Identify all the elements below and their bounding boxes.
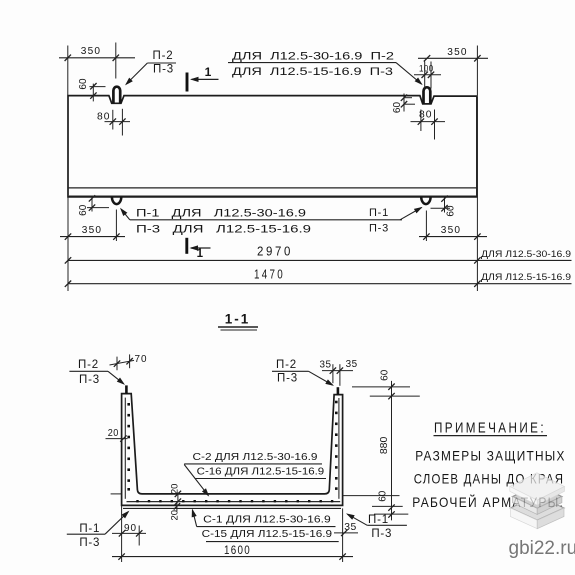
section cut mark 1 (bottom) [187, 238, 211, 260]
rebar dots bottom slab [136, 500, 333, 502]
svg-text:100: 100 [419, 64, 434, 75]
svg-text:П-2: П-2 [78, 359, 99, 371]
svg-text:1: 1 [205, 65, 212, 79]
dimension 60 bottom-right [431, 195, 457, 216]
dimension 20 slab bottom cover [169, 502, 180, 521]
dimension 80 top-right [411, 109, 446, 139]
svg-text:П-1: П-1 [79, 523, 100, 535]
svg-text:П-1 ДЛЯ Л12.5-30-16.9: П-1 ДЛЯ Л12.5-30-16.9 [136, 207, 306, 219]
dimension 350 bottom-right [419, 211, 487, 242]
svg-text:П-2: П-2 [153, 50, 174, 62]
rebar dots left wall [127, 403, 130, 491]
svg-text:П-2: П-2 [276, 359, 297, 371]
dimension 350 bottom-left [60, 210, 125, 242]
svg-text:60: 60 [380, 369, 391, 381]
reinforcement cage line right wall [338, 398, 340, 499]
svg-text:70: 70 [135, 354, 148, 365]
svg-text:ДЛЯ Л12.5-15-16.9 П-3: ДЛЯ Л12.5-15-16.9 П-3 [232, 66, 393, 78]
svg-text:ДЛЯ Л12.5-30-16.9 П-2: ДЛЯ Л12.5-30-16.9 П-2 [232, 51, 394, 63]
svg-text:С-15 ДЛЯ Л12.5-15-16.9: С-15 ДЛЯ Л12.5-15-16.9 [202, 528, 333, 540]
svg-text:С-1 ДЛЯ Л12.5-30-16.9: С-1 ДЛЯ Л12.5-30-16.9 [203, 513, 331, 525]
gbi22 watermark stack logo [510, 473, 565, 529]
note title Primechanie [434, 421, 548, 437]
svg-text:60: 60 [78, 78, 89, 90]
dimension 350 top-left [59, 43, 135, 96]
dimension 80 top-left (recess width) [97, 109, 130, 136]
svg-text:35: 35 [346, 359, 358, 370]
channel section outline [122, 394, 343, 506]
lifting loop P2 top-left [113, 87, 120, 104]
dimension 20 slab top cover [169, 484, 181, 505]
svg-text:П-3: П-3 [371, 528, 392, 540]
svg-text:60: 60 [445, 205, 456, 217]
dimension 60 top-left (loop protrusion) [78, 78, 105, 101]
svg-text:60: 60 [378, 490, 389, 502]
dimension 35 bottom-right of section [334, 521, 358, 536]
overall dimension 1470 [65, 267, 572, 287]
lifting loop P1 bottom-right [421, 197, 430, 204]
svg-text:С-16 ДЛЯ Л12.5-15-16.9: С-16 ДЛЯ Л12.5-15-16.9 [197, 466, 325, 478]
svg-text:ПРИМЕЧАНИЕ:: ПРИМЕЧАНИЕ: [434, 421, 546, 437]
label P-1/P-3 section bottom-right with leader [346, 513, 407, 540]
svg-text:90: 90 [124, 522, 137, 534]
dimension 35+35 section top-right [320, 359, 358, 386]
reinforcement mesh line in slab [127, 501, 341, 503]
svg-text:ДЛЯ Л12.5-15-16.9: ДЛЯ Л12.5-15-16.9 [481, 272, 571, 282]
svg-text:П-1: П-1 [368, 514, 389, 526]
rebar dots right wall [335, 401, 338, 490]
svg-text:П-3 ДЛЯ Л12.5-15-16.9: П-3 ДЛЯ Л12.5-15-16.9 [136, 224, 311, 236]
svg-text:П-1: П-1 [369, 207, 389, 219]
svg-text:880: 880 [378, 436, 390, 454]
dimension 60 top-right (recess depth) [392, 94, 415, 114]
svg-text:gbi22.ru: gbi22.ru [509, 538, 575, 559]
svg-text:1470: 1470 [254, 267, 285, 282]
label DLYA L12.5 rows top-right with leader to loop [228, 51, 423, 86]
svg-text:20: 20 [169, 510, 180, 521]
floor line right extension [343, 495, 400, 497]
dimension 70 section top-left [110, 354, 148, 370]
svg-text:П-3: П-3 [153, 64, 174, 76]
section cut mark 1 (top) [187, 65, 219, 92]
lifting loop P2 top-right [423, 87, 430, 104]
svg-text:80: 80 [419, 109, 433, 120]
overall dimension 2970 with extension lines [65, 97, 572, 292]
svg-text:1600: 1600 [224, 545, 251, 557]
label C-2 / C-16 rows with leader to mesh [184, 451, 326, 497]
svg-text:35: 35 [344, 521, 357, 533]
svg-text:80: 80 [97, 111, 111, 122]
svg-text:РАЗМЕРЫ ЗАЩИТНЫХ: РАЗМЕРЫ ЗАЩИТНЫХ [415, 448, 566, 464]
svg-text:350: 350 [441, 225, 462, 236]
dimension 100 top-right (loop width) [414, 62, 441, 89]
beam elevation outline [68, 96, 477, 197]
svg-text:П-3: П-3 [79, 374, 100, 386]
lifting loop P1 bottom-left [112, 197, 121, 204]
dimension 20 left wall cover [106, 428, 128, 442]
label P-2/P-3 top-left with leader [125, 50, 176, 86]
dimension 90 bottom-left of section [112, 522, 146, 545]
svg-text:350: 350 [447, 47, 468, 58]
label P-1/P-3 rows bottom with leaders to loops [120, 207, 423, 236]
svg-text:20: 20 [108, 428, 119, 439]
overall dimension 1600 with extension lines [112, 505, 353, 562]
svg-text:С-2 ДЛЯ Л12.5-30-16.9: С-2 ДЛЯ Л12.5-30-16.9 [193, 451, 318, 463]
svg-text:60: 60 [392, 102, 403, 114]
svg-text:350: 350 [81, 46, 102, 57]
vertical dimension 60/880/60 right of section [352, 369, 420, 520]
label P-1/P-3 section bottom-left with leader [67, 511, 130, 549]
label C-1 / C-15 rows with leader to slab [192, 509, 339, 542]
dimension 60 bottom-left [78, 195, 109, 216]
loop bar tip top-right wall [337, 387, 340, 394]
slab bottom second line [123, 507, 341, 509]
svg-text:П-3: П-3 [79, 537, 100, 549]
label P-2/P-3 section left with leader [69, 359, 125, 386]
dimension 350 top-right [418, 46, 488, 96]
floor line left extension [111, 493, 122, 495]
svg-text:П-3: П-3 [277, 372, 298, 384]
svg-text:350: 350 [82, 225, 103, 236]
svg-text:60: 60 [78, 204, 89, 216]
svg-text:2970: 2970 [257, 244, 293, 259]
svg-text:ДЛЯ Л12.5-30-16.9: ДЛЯ Л12.5-30-16.9 [481, 249, 571, 259]
loop bar tip top-left wall [125, 385, 128, 393]
reinforcement cage line left wall [124, 398, 126, 499]
svg-text:35: 35 [320, 359, 332, 370]
svg-text:П-3: П-3 [369, 223, 389, 235]
svg-text:1: 1 [197, 248, 204, 260]
svg-text:1-1: 1-1 [225, 311, 251, 326]
section title 1-1 [218, 311, 258, 330]
label P-2/P-3 section right with leader [272, 359, 334, 386]
